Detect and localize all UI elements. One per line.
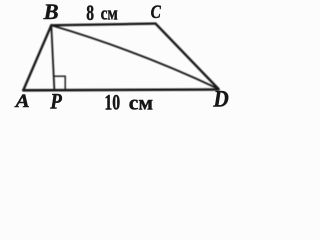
svg-text:C: C <box>151 2 161 23</box>
diagonal BD <box>51 25 218 89</box>
base AD <box>23 88 218 91</box>
svg-text:D: D <box>212 87 229 112</box>
side BC <box>51 24 155 26</box>
svg-text:см: см <box>129 93 153 114</box>
svg-text:8: 8 <box>86 0 94 25</box>
side CD <box>156 24 219 89</box>
svg-text:10: 10 <box>104 89 120 114</box>
svg-text:A: A <box>14 92 29 112</box>
right angle mark at P <box>54 76 65 89</box>
svg-text:B: B <box>43 0 59 24</box>
svg-text:P: P <box>49 89 62 114</box>
altitude BP <box>51 25 54 89</box>
svg-text:см: см <box>101 4 119 24</box>
side AB <box>23 25 51 90</box>
